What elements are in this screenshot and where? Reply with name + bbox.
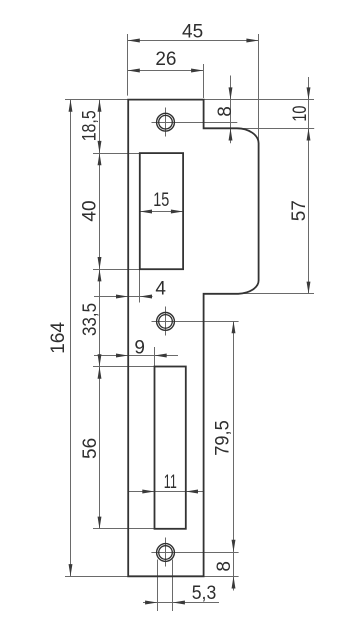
svg-text:45: 45 [182, 21, 203, 42]
svg-text:79,5: 79,5 [213, 420, 234, 456]
svg-text:4: 4 [155, 279, 166, 300]
svg-text:18,5: 18,5 [80, 110, 101, 141]
svg-text:8: 8 [215, 106, 236, 117]
svg-text:15: 15 [153, 190, 169, 211]
svg-text:40: 40 [80, 200, 101, 221]
svg-text:11: 11 [164, 472, 177, 493]
svg-text:10: 10 [290, 106, 311, 122]
svg-text:33,5: 33,5 [80, 303, 101, 336]
svg-text:9: 9 [134, 337, 145, 358]
svg-text:5,3: 5,3 [192, 583, 217, 604]
svg-text:164: 164 [48, 321, 69, 353]
svg-text:26: 26 [155, 49, 176, 70]
svg-text:57: 57 [289, 200, 310, 221]
svg-text:56: 56 [80, 438, 101, 459]
svg-text:8: 8 [214, 561, 235, 572]
